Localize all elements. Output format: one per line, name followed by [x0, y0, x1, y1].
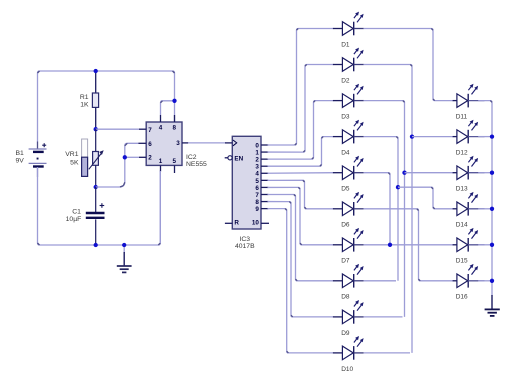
wire IC3 output 7 to D8	[268, 194, 334, 280]
wire IC3 output 8 to D9	[268, 202, 334, 317]
LED D12	[453, 120, 485, 157]
wire node to pin2/pin6 junction	[96, 157, 139, 187]
svg-text:NE555: NE555	[186, 161, 207, 168]
svg-text:9V: 9V	[16, 157, 25, 164]
wire IC3 output 2 to D3	[268, 101, 334, 160]
svg-text:D12: D12	[456, 150, 468, 157]
svg-text:8: 8	[173, 124, 177, 131]
LED D3	[333, 84, 364, 121]
wire node to D14	[398, 187, 454, 209]
potentiometer VR1	[89, 150, 104, 169]
svg-text:1: 1	[159, 158, 163, 165]
svg-text:IC2: IC2	[186, 154, 197, 161]
wire ground tap	[123, 245, 125, 266]
svg-text:D3: D3	[341, 114, 350, 121]
svg-text:5: 5	[173, 158, 177, 165]
svg-text:1: 1	[255, 149, 259, 156]
wire VR1 top	[95, 129, 97, 151]
label C1 10uF	[66, 208, 82, 223]
LED D10	[333, 336, 364, 373]
node D2/D10/D12	[410, 134, 414, 138]
wire R1 top	[95, 71, 97, 94]
LED D15	[453, 228, 485, 265]
svg-text:4: 4	[159, 124, 163, 131]
node bus D13	[490, 171, 494, 175]
svg-text:10µF: 10µF	[66, 216, 82, 223]
VR1 slider widget	[82, 139, 88, 176]
IC3 pin labels	[234, 142, 259, 226]
node pin4/pin8	[172, 99, 176, 103]
svg-text:D11: D11	[456, 114, 468, 121]
LED D1	[333, 12, 364, 49]
svg-text:3: 3	[255, 164, 259, 171]
LED D4	[333, 120, 364, 157]
resistor R1	[92, 93, 98, 107]
wire right cathode bus	[478, 101, 492, 296]
svg-text:R: R	[234, 220, 239, 227]
wire IC3 output 4 to D5	[268, 172, 334, 175]
wire D9 cathode	[364, 316, 403, 318]
wire C1 bottom	[95, 219, 97, 245]
svg-text:D6: D6	[341, 222, 350, 229]
svg-text:9: 9	[255, 206, 259, 213]
wire D4 cathode down	[364, 137, 398, 281]
wire D3 cathode down	[364, 101, 405, 317]
wire node to IC2 pin 7	[96, 128, 139, 130]
svg-text:D1: D1	[341, 41, 350, 48]
label VR1 5K	[65, 151, 79, 166]
node D4/D8/D14	[396, 185, 400, 189]
node R1 / VR1 / pin7	[94, 127, 98, 131]
wire D10 cathode	[364, 352, 410, 354]
svg-text:D7: D7	[341, 258, 350, 265]
wire R1 bottom	[95, 107, 97, 129]
wire D1 cathode to D11	[364, 29, 454, 101]
wire D14 cathode to bus	[478, 208, 492, 210]
label B1 9V	[16, 150, 25, 164]
wire IC3 output 0 to D1	[268, 29, 334, 146]
node D5/D7/D15	[388, 243, 392, 247]
LED D16	[453, 264, 485, 301]
wire D7 cathode to D15	[364, 244, 454, 246]
ground	[117, 266, 132, 272]
wire D12 cathode to bus	[478, 136, 492, 138]
ground right	[485, 309, 500, 316]
svg-text:3: 3	[176, 140, 180, 147]
svg-text:6: 6	[255, 185, 259, 192]
svg-text:EN: EN	[234, 156, 243, 163]
LED D5	[333, 156, 364, 193]
wire node to D12	[412, 136, 454, 138]
wire IC2 pin3 to IC3 clock	[188, 142, 226, 144]
node ground rail	[122, 243, 126, 247]
wire IC3 output 9 to D10	[268, 209, 334, 353]
wire V+ rail from battery to IC2 pins 4/8	[38, 71, 175, 149]
LED D2	[333, 48, 364, 85]
svg-text:10: 10	[252, 220, 260, 227]
svg-text:B1: B1	[16, 150, 25, 157]
svg-text:7: 7	[148, 127, 152, 134]
wire D5 cathode down	[364, 173, 390, 245]
wire IC2 pin1 to ground rail	[159, 171, 161, 243]
node bus D16	[490, 279, 494, 283]
node bus D15	[490, 243, 494, 247]
svg-text:0: 0	[255, 142, 259, 149]
battery B1	[29, 142, 47, 178]
wire node to D13	[405, 172, 454, 174]
svg-text:4: 4	[255, 171, 259, 178]
svg-text:D16: D16	[456, 294, 468, 301]
node bus D12	[490, 134, 494, 138]
wire IC3 output 1 to D2	[268, 65, 334, 153]
wire IC3 output 6 to D7	[268, 187, 334, 244]
label IC2 NE555	[186, 154, 207, 168]
svg-text:7: 7	[255, 192, 259, 199]
wire D2 cathode down	[364, 65, 412, 353]
svg-text:2: 2	[255, 157, 259, 164]
IC3 output stubs	[261, 145, 268, 209]
IC2 pin numbers	[148, 124, 180, 165]
svg-text:D4: D4	[341, 150, 350, 157]
node VR1 / C1 / pins 2-6	[94, 185, 98, 189]
wire VR1 bottom	[95, 165, 97, 187]
svg-text:C1: C1	[72, 208, 81, 215]
label R1 1K	[80, 94, 89, 108]
wire rail to IC2 pin 4	[161, 101, 175, 115]
op-amp U1 IC2 NE555 body	[138, 115, 188, 173]
svg-text:4017B: 4017B	[235, 243, 255, 250]
LED D8	[333, 264, 364, 301]
svg-text:D15: D15	[456, 258, 468, 265]
svg-text:D13: D13	[456, 186, 468, 193]
svg-text:D9: D9	[341, 330, 350, 337]
node V+ / R1	[94, 69, 98, 73]
counter IC3 4017B body	[225, 136, 269, 229]
svg-text:6: 6	[148, 141, 152, 148]
label IC3 4017B	[235, 236, 255, 250]
wire D6 cathode to D16	[364, 209, 454, 281]
wire bus to ground	[491, 295, 493, 309]
svg-text:D10: D10	[341, 366, 353, 373]
svg-text:5K: 5K	[70, 159, 79, 166]
svg-text:2: 2	[148, 155, 152, 162]
svg-text:R1: R1	[80, 94, 89, 101]
wire D16 cathode to bus	[478, 280, 492, 282]
wire D8 cathode	[364, 280, 396, 282]
capacitor C1	[86, 203, 105, 218]
svg-text:5: 5	[255, 178, 259, 185]
node bus D14	[490, 207, 494, 211]
svg-text:8: 8	[255, 199, 259, 206]
node D3/D9/D13	[402, 171, 406, 175]
wire D13 cathode to bus	[478, 172, 492, 174]
svg-text:D14: D14	[456, 222, 468, 229]
svg-text:1K: 1K	[80, 101, 89, 108]
wire IC3 output 3 to D4	[268, 137, 334, 167]
LED D14	[453, 192, 485, 229]
node pin2/pin6 junction	[123, 155, 127, 159]
wire D15 cathode to bus	[478, 244, 492, 246]
LED D7	[333, 228, 364, 265]
svg-text:D8: D8	[341, 294, 350, 301]
wire C1 top	[95, 187, 97, 212]
svg-text:VR1: VR1	[65, 151, 78, 158]
svg-text:D5: D5	[341, 186, 350, 193]
LED D13	[453, 156, 485, 193]
wire battery negative to ground rail	[38, 167, 161, 245]
LED D9	[333, 300, 364, 337]
wire IC3 output 5 to D6	[268, 180, 334, 209]
LED D11	[453, 84, 485, 121]
svg-text:D2: D2	[341, 77, 350, 84]
wire IC2 pin6 to junction	[125, 143, 139, 157]
node C1 / ground rail	[94, 243, 98, 247]
LED D6	[333, 192, 364, 229]
